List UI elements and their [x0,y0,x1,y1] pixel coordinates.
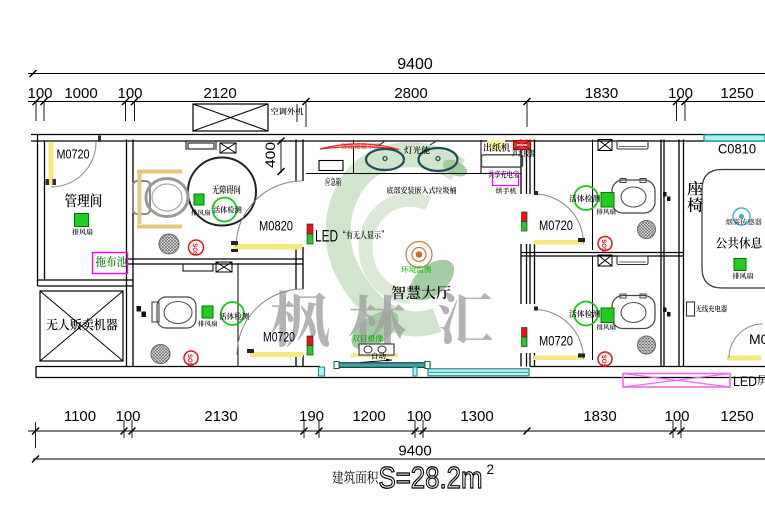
svg-text:M0720: M0720 [539,333,573,349]
svg-text:2120: 2120 [203,85,236,102]
svg-text:SOS: SOS [600,355,606,368]
svg-text:LED: LED [733,373,757,389]
svg-text:M0720: M0720 [539,217,573,233]
svg-text:100: 100 [406,408,431,425]
svg-text:1250: 1250 [720,85,753,102]
svg-text:SOS: SOS [600,239,606,252]
svg-text:C0810: C0810 [718,141,756,157]
svg-text:1200: 1200 [352,408,385,425]
svg-text:LED: LED [315,227,338,246]
svg-text:100: 100 [664,408,689,425]
svg-text:190: 190 [299,408,324,425]
svg-text:400: 400 [262,142,278,168]
svg-text:1100: 1100 [64,408,96,425]
svg-text:2: 2 [487,462,495,477]
svg-text:SOS: SOS [186,354,192,367]
svg-text:1300: 1300 [460,408,493,425]
svg-text:1830: 1830 [583,408,616,425]
svg-text:S=28.2m: S=28.2m [379,461,483,495]
svg-text:1000: 1000 [64,85,97,102]
svg-text:M0720: M0720 [57,148,90,162]
svg-text:100: 100 [115,408,140,425]
svg-text:9400: 9400 [398,443,431,460]
svg-text:9400: 9400 [397,56,433,73]
svg-text:1830: 1830 [585,85,618,102]
svg-text:M07: M07 [749,331,765,347]
svg-text:100: 100 [117,85,142,102]
svg-text:2800: 2800 [394,85,427,102]
svg-text:SOS: SOS [191,243,197,256]
svg-text:2130: 2130 [204,408,237,425]
svg-text:M0820: M0820 [259,218,293,234]
svg-text:100: 100 [27,85,52,102]
svg-text:1250: 1250 [720,408,753,425]
svg-text:100: 100 [668,85,693,102]
svg-text:M0720: M0720 [263,329,295,345]
